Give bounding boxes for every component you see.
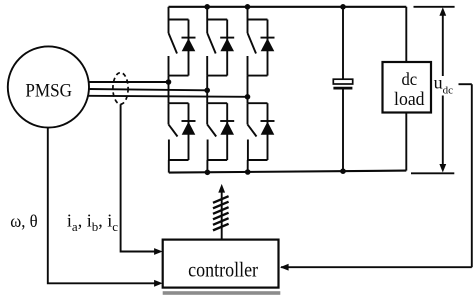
converter leg 1 upper cell: switch S1 <box>169 7 178 76</box>
wire leg2 mid <box>206 90 208 103</box>
svg-text:load: load <box>394 90 425 110</box>
node phase a junction <box>166 79 172 85</box>
wire udc feedback stub <box>459 83 472 85</box>
wire leg2 to bottom bus <box>206 160 208 172</box>
wire capacitor top <box>342 7 344 79</box>
converter leg 3 upper cell: switch S5 <box>248 7 257 76</box>
dc load box <box>383 62 432 113</box>
scan artifact gray band <box>163 291 281 295</box>
node top bus capacitor <box>340 4 346 10</box>
wire phase b <box>89 89 208 90</box>
wire speed/angle from PMSG <box>48 128 155 284</box>
node bottom bus leg2 <box>205 170 211 176</box>
converter leg 3 lower cell frame <box>248 103 268 160</box>
wire capacitor bottom <box>342 88 344 171</box>
udc dimension arrow up <box>439 7 446 76</box>
capacitor C1 top plate <box>333 79 352 84</box>
svg-text:ω, θ: ω, θ <box>10 211 37 231</box>
node bottom bus leg3 <box>245 169 251 175</box>
wire leg3 to bottom bus <box>247 160 249 172</box>
node phase b junction <box>204 88 210 94</box>
udc dimension arrow down <box>439 96 446 173</box>
wire phase c <box>89 96 248 97</box>
controller box <box>163 240 279 288</box>
capacitor C1 bottom plate <box>333 87 352 90</box>
gate signal hatch marks <box>213 196 229 230</box>
wire currents from sensor <box>121 104 155 251</box>
diode D4 <box>220 103 234 160</box>
svg-text:ia, ib, ic: ia, ib, ic <box>67 211 118 235</box>
wire leg1 to phase a <box>168 76 170 82</box>
wire phase a <box>89 81 169 83</box>
diode D3 <box>220 20 234 76</box>
arrowhead currents into controller <box>154 248 163 255</box>
gate signal arrowhead <box>218 184 225 193</box>
arrowhead speed/angle into controller <box>154 280 163 287</box>
svg-text:udc: udc <box>434 73 454 97</box>
current sensor dashed ellipse <box>113 73 128 105</box>
node top bus leg2 <box>204 4 210 10</box>
diode D5 <box>261 20 275 76</box>
svg-text:controller: controller <box>188 258 258 282</box>
converter leg 2 lower cell frame <box>207 103 227 160</box>
wire bottom DC bus <box>169 171 406 173</box>
diode D6 <box>261 103 275 160</box>
wire udc feedback horizontal <box>281 266 472 268</box>
udc dimension top tick <box>414 6 455 8</box>
arrowhead udc feedback into controller <box>280 264 289 271</box>
svg-text:PMSG: PMSG <box>25 80 72 101</box>
svg-text:dc: dc <box>401 69 417 89</box>
converter leg 2 upper cell frame <box>207 20 227 76</box>
converter leg 1 lower cell frame <box>169 103 189 160</box>
gate signal arrow stem <box>221 192 223 240</box>
converter leg 2 upper cell: switch S3 <box>207 7 216 76</box>
node top bus leg3 <box>245 4 251 10</box>
diode D1 <box>182 20 196 76</box>
wire leg3 to phase c <box>247 76 249 97</box>
udc dimension bottom tick <box>411 172 454 174</box>
wire leg2 to phase b <box>206 76 208 91</box>
wire leg1 to bottom bus <box>168 160 170 173</box>
wire dc load top <box>405 7 407 62</box>
wire leg1 mid <box>168 82 170 103</box>
wire leg3 mid <box>247 97 249 103</box>
converter leg 3 lower cell: switch S6 <box>248 103 257 160</box>
generator PMSG circle <box>8 46 89 127</box>
diode D2 <box>182 103 196 160</box>
node phase c junction <box>245 94 251 100</box>
converter leg 1 lower cell: switch S2 <box>169 103 178 160</box>
wire top DC bus <box>169 6 407 8</box>
wire dc load bottom <box>405 113 407 171</box>
node bottom bus capacitor <box>340 168 346 174</box>
converter leg 3 upper cell frame <box>248 20 268 76</box>
converter leg 2 lower cell: switch S4 <box>207 103 216 160</box>
wire udc feedback vertical <box>471 84 473 267</box>
converter leg 1 upper cell frame <box>169 20 189 76</box>
